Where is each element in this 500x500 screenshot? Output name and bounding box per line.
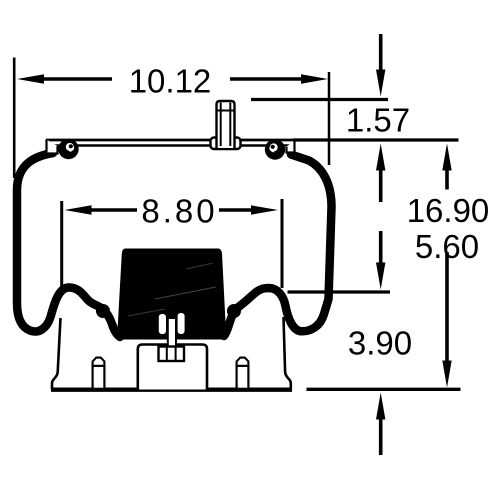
svg-text:16.90: 16.90 <box>407 192 490 229</box>
svg-text:10.12: 10.12 <box>129 63 212 100</box>
svg-text:5.60: 5.60 <box>415 228 479 265</box>
svg-text:3.90: 3.90 <box>348 325 412 362</box>
svg-text:8.80: 8.80 <box>141 193 217 230</box>
svg-text:1.57: 1.57 <box>346 102 410 139</box>
